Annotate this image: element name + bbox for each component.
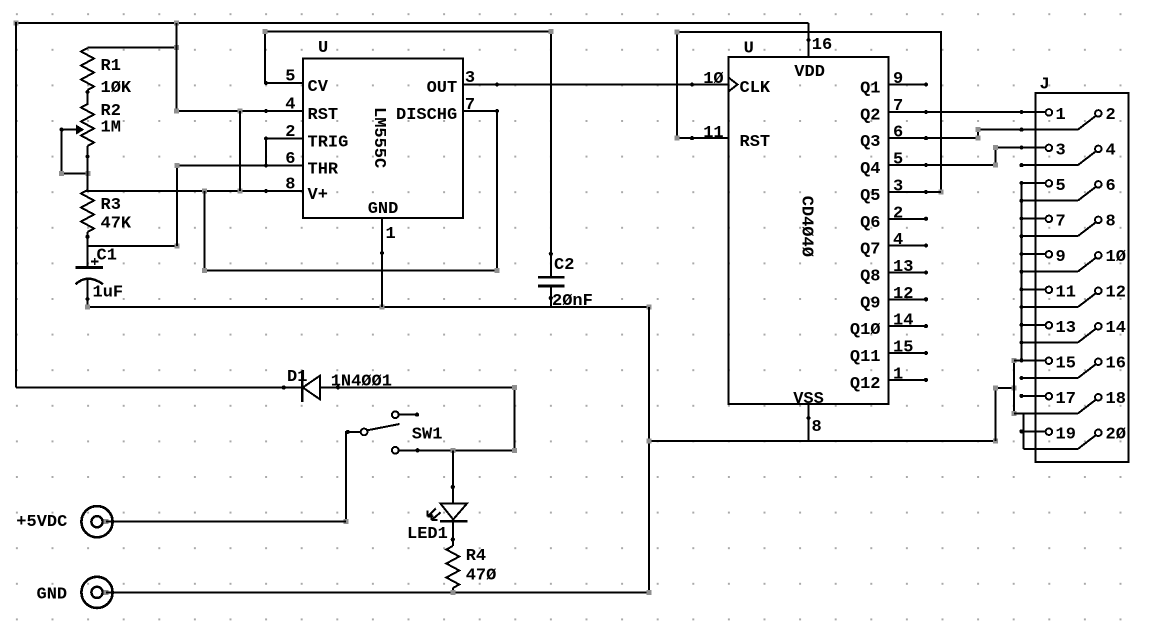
pin 1 label bbox=[386, 225, 396, 244]
op-amp U1 LM555C box bbox=[303, 59, 463, 219]
J pin 7 bbox=[1019, 216, 1052, 223]
svg-text:DISCHG: DISCHG bbox=[396, 106, 457, 125]
pin DISCHG label bbox=[396, 106, 457, 125]
svg-text:TRIG: TRIG bbox=[308, 134, 349, 153]
label R1 bbox=[101, 57, 121, 76]
pin number 9 (Q1) bbox=[893, 70, 903, 89]
svg-text:Q4: Q4 bbox=[860, 160, 880, 179]
wire GND rail bottom bbox=[106, 590, 651, 595]
svg-text:Q12: Q12 bbox=[850, 375, 881, 394]
wire Q7 stub bbox=[889, 244, 928, 248]
pin number 6 (Q3) bbox=[893, 124, 903, 143]
svg-text:RST: RST bbox=[740, 133, 771, 152]
value 1M bbox=[101, 119, 121, 138]
pin Q2 label bbox=[860, 106, 880, 125]
svg-text:Q6: Q6 bbox=[860, 214, 880, 233]
value 1N4001 bbox=[331, 373, 392, 392]
svg-text:2: 2 bbox=[893, 204, 903, 223]
resistor R2 (pot) bbox=[81, 104, 94, 159]
capacitor C2 bbox=[538, 277, 565, 307]
svg-text:3: 3 bbox=[893, 177, 903, 196]
svg-text:1N4ØØ1: 1N4ØØ1 bbox=[331, 373, 392, 392]
svg-text:RST: RST bbox=[308, 106, 339, 125]
svg-text:U: U bbox=[318, 39, 328, 58]
svg-text:7: 7 bbox=[1056, 212, 1066, 231]
svg-text:4: 4 bbox=[893, 231, 903, 250]
pin number 4 (Q7) bbox=[893, 231, 903, 250]
pin Q8 label bbox=[860, 267, 880, 286]
pin number 15 (Q11) bbox=[893, 339, 913, 358]
wire 555 TRIG stub bbox=[264, 136, 303, 140]
svg-text:11: 11 bbox=[703, 124, 723, 143]
svg-text:1Ø: 1Ø bbox=[1106, 248, 1126, 267]
wire Q5-RST loop bbox=[675, 30, 944, 195]
svg-text:C1: C1 bbox=[97, 247, 117, 266]
J pin 11 bbox=[1019, 287, 1052, 294]
svg-text:12: 12 bbox=[893, 285, 913, 304]
wire GND rail mid bbox=[85, 305, 651, 310]
label R3 bbox=[101, 196, 121, 215]
svg-text:VDD: VDD bbox=[794, 63, 825, 82]
pin 8 label bbox=[285, 176, 295, 195]
wire VDD left border drop bbox=[15, 22, 17, 388]
pin 11 label bbox=[703, 124, 723, 143]
svg-text:R1: R1 bbox=[101, 57, 121, 76]
pin CLK label bbox=[740, 79, 771, 98]
label C2 bbox=[554, 256, 574, 275]
pin 8 label bbox=[1106, 212, 1116, 231]
ic U2 CD4040 box bbox=[729, 57, 889, 404]
svg-text:3: 3 bbox=[1056, 141, 1066, 160]
resistor R4 bbox=[446, 546, 459, 588]
svg-text:11: 11 bbox=[1056, 283, 1076, 302]
pin THR label bbox=[308, 161, 339, 180]
svg-text:5: 5 bbox=[893, 151, 903, 170]
wire Q6 stub bbox=[889, 217, 928, 221]
pin 16 label bbox=[1106, 354, 1126, 373]
wire Q8 stub bbox=[889, 270, 928, 274]
svg-text:2Ø: 2Ø bbox=[1106, 425, 1126, 444]
svg-text:19: 19 bbox=[1056, 425, 1076, 444]
pin 6 label bbox=[1106, 177, 1116, 196]
wire Q3 to J pin2 bbox=[889, 127, 1078, 141]
J pin 12 bbox=[1019, 288, 1101, 310]
svg-text:5: 5 bbox=[1056, 177, 1066, 196]
pin 4 label bbox=[285, 96, 295, 115]
svg-text:Q9: Q9 bbox=[860, 294, 880, 313]
wire U2 VSS stub bbox=[807, 404, 811, 441]
svg-text:8: 8 bbox=[812, 418, 822, 437]
svg-text:4: 4 bbox=[1106, 141, 1116, 160]
svg-text:OUT: OUT bbox=[427, 79, 458, 98]
J pin 5 bbox=[1019, 180, 1052, 187]
wire 555 RST line bbox=[174, 109, 303, 114]
value CD4040 bbox=[797, 196, 816, 257]
pin 6 label bbox=[285, 150, 295, 169]
svg-text:J: J bbox=[1040, 76, 1050, 95]
svg-text:13: 13 bbox=[1056, 319, 1076, 338]
svg-text:8: 8 bbox=[285, 176, 295, 195]
svg-text:+5VDC: +5VDC bbox=[16, 513, 67, 532]
wire CV loop bbox=[263, 29, 554, 277]
svg-text:14: 14 bbox=[1106, 319, 1126, 338]
pin 14 label bbox=[1106, 319, 1126, 338]
J pin 18 bbox=[1014, 394, 1102, 414]
J pin 10 bbox=[1019, 252, 1101, 274]
J pin 19 bbox=[1019, 428, 1052, 435]
pin number 14 (Q10) bbox=[893, 312, 913, 331]
wire LED1 to R4 bbox=[451, 521, 455, 547]
label R4 bbox=[466, 547, 486, 566]
svg-text:V+: V+ bbox=[308, 186, 328, 205]
value 470 bbox=[466, 567, 497, 586]
wire R1 top to rail drop bbox=[88, 45, 180, 50]
wire R3 to C1 bbox=[87, 232, 89, 268]
svg-text:SW1: SW1 bbox=[412, 426, 443, 445]
wire Q1 stub bbox=[889, 82, 928, 86]
svg-text:17: 17 bbox=[1056, 390, 1076, 409]
label C1 bbox=[97, 247, 117, 266]
pin VSS label bbox=[793, 390, 824, 409]
wire Q12 stub bbox=[889, 378, 928, 382]
resistor R1 bbox=[81, 48, 94, 94]
svg-text:1uF: 1uF bbox=[93, 284, 124, 303]
svg-text:1Ø: 1Ø bbox=[703, 70, 723, 89]
J pin 13 bbox=[1019, 322, 1052, 329]
pin V+ label bbox=[308, 186, 328, 205]
svg-text:47K: 47K bbox=[101, 215, 132, 234]
svg-text:18: 18 bbox=[1106, 390, 1126, 409]
pin 10 label bbox=[703, 70, 723, 89]
svg-text:15: 15 bbox=[893, 339, 913, 358]
wire J bus upper bbox=[1021, 183, 1023, 360]
pin OUT label bbox=[427, 79, 458, 98]
pin 15 label bbox=[1056, 354, 1076, 373]
pin number 5 (Q4) bbox=[893, 151, 903, 170]
resistor R3 bbox=[81, 190, 94, 239]
node RST drop bbox=[176, 23, 178, 111]
svg-text:2ØnF: 2ØnF bbox=[552, 292, 593, 311]
svg-text:R4: R4 bbox=[466, 547, 486, 566]
wire Q2 to J pin1 bbox=[889, 110, 1046, 114]
pin number 7 (Q2) bbox=[893, 97, 903, 116]
pin number 13 (Q8) bbox=[893, 258, 913, 277]
svg-text:6: 6 bbox=[1106, 177, 1116, 196]
wire Q4 to J pin3 bbox=[889, 145, 1046, 168]
svg-text:LED1: LED1 bbox=[407, 525, 448, 544]
svg-text:Q11: Q11 bbox=[850, 348, 881, 367]
label U2 U bbox=[744, 40, 754, 59]
pin Q9 label bbox=[860, 294, 880, 313]
wire R3 bottom line bbox=[88, 243, 180, 248]
pin Q4 label bbox=[860, 160, 880, 179]
pin Q1 label bbox=[860, 80, 880, 99]
pin 16 label bbox=[812, 36, 832, 55]
pin 2 label bbox=[1106, 106, 1116, 125]
J pin 20 bbox=[1024, 429, 1102, 449]
svg-text:THR: THR bbox=[308, 161, 339, 180]
wire gnd to J15/18 bbox=[993, 386, 1016, 441]
svg-text:Q1Ø: Q1Ø bbox=[850, 321, 881, 340]
wire R1 to R2 bbox=[87, 90, 89, 105]
wire U1 GND stub bbox=[380, 218, 384, 307]
pin number 1 (Q12) bbox=[893, 365, 903, 384]
pin Q7 label bbox=[860, 241, 880, 260]
wire 555 THR line bbox=[174, 163, 303, 168]
J pin 6 bbox=[1019, 181, 1101, 203]
svg-text:47Ø: 47Ø bbox=[466, 567, 497, 586]
svg-text:GND: GND bbox=[368, 200, 399, 219]
svg-text:12: 12 bbox=[1106, 283, 1126, 302]
label D1 bbox=[287, 368, 307, 387]
svg-text:1: 1 bbox=[386, 225, 396, 244]
pin 9 label bbox=[1056, 248, 1066, 267]
J pin 16 bbox=[1019, 358, 1101, 380]
wire GND drop right bbox=[648, 307, 650, 592]
wire OUT to CLK bbox=[463, 82, 728, 86]
svg-text:2: 2 bbox=[285, 123, 295, 142]
pin Q5 label bbox=[860, 187, 880, 206]
svg-text:6: 6 bbox=[285, 150, 295, 169]
pin 3 label bbox=[465, 69, 475, 88]
label U1 U bbox=[318, 39, 328, 58]
label GND bbox=[37, 586, 68, 605]
J pin 2 bbox=[1078, 110, 1102, 130]
svg-text:LM555C: LM555C bbox=[369, 107, 388, 168]
diode D1 bbox=[302, 372, 320, 403]
svg-text:U: U bbox=[744, 40, 754, 59]
svg-text:Q3: Q3 bbox=[860, 133, 880, 152]
pin CV label bbox=[308, 78, 329, 97]
connector J box bbox=[1036, 93, 1129, 462]
pin 4 label bbox=[1106, 141, 1116, 160]
svg-text:CD4Ø4Ø: CD4Ø4Ø bbox=[797, 196, 816, 257]
wire Q5 stub bbox=[889, 190, 941, 194]
J pin 1 bbox=[1046, 109, 1053, 116]
svg-text:Q5: Q5 bbox=[860, 187, 880, 206]
terminal GND bbox=[81, 577, 112, 608]
wire VDD top rail bbox=[14, 21, 809, 26]
wire R2 to R3 bbox=[87, 146, 89, 192]
wire DISCHG loop bbox=[202, 109, 499, 273]
value LM555C bbox=[369, 107, 388, 168]
svg-text:CLK: CLK bbox=[740, 79, 771, 98]
wire VDD stub to U2 pin 16 bbox=[807, 23, 811, 57]
value 1uF bbox=[93, 284, 124, 303]
pin 7 label bbox=[465, 96, 475, 115]
pin 8 label U2 bbox=[812, 418, 822, 437]
pin 5 label bbox=[1056, 177, 1066, 196]
svg-text:16: 16 bbox=[812, 36, 832, 55]
svg-text:7: 7 bbox=[465, 96, 475, 115]
capacitor C1 bbox=[76, 268, 103, 308]
J pin 3 bbox=[1046, 145, 1053, 152]
wire Q11 stub bbox=[889, 351, 928, 355]
svg-text:CV: CV bbox=[308, 78, 329, 97]
led LED1 bbox=[428, 504, 468, 521]
J pin 9 bbox=[1019, 251, 1052, 258]
svg-text:GND: GND bbox=[37, 586, 68, 605]
wire rail to D1 bbox=[16, 385, 301, 389]
svg-text:R3: R3 bbox=[101, 196, 121, 215]
pin number 3 (Q5) bbox=[893, 177, 903, 196]
pin GND label bbox=[368, 200, 399, 219]
pin Q11 label bbox=[850, 348, 881, 367]
pin number 12 (Q9) bbox=[893, 285, 913, 304]
wire THR drop bbox=[176, 166, 178, 246]
wire D1 to SW1 bbox=[321, 385, 517, 453]
pin 5 label bbox=[285, 68, 295, 87]
pin 20 label bbox=[1106, 425, 1126, 444]
value 47K bbox=[101, 215, 132, 234]
wire Q9 stub bbox=[889, 297, 928, 301]
pin 1 label bbox=[1056, 106, 1066, 125]
pin TRIG label bbox=[308, 134, 349, 153]
svg-text:13: 13 bbox=[893, 258, 913, 277]
pin 12 label bbox=[1106, 283, 1126, 302]
svg-text:9: 9 bbox=[893, 70, 903, 89]
svg-text:1: 1 bbox=[1056, 106, 1066, 125]
label SW1 bbox=[412, 426, 443, 445]
svg-text:4: 4 bbox=[285, 96, 295, 115]
svg-text:C2: C2 bbox=[554, 256, 574, 275]
svg-text:9: 9 bbox=[1056, 248, 1066, 267]
pin 19 label bbox=[1056, 425, 1076, 444]
svg-text:Q8: Q8 bbox=[860, 267, 880, 286]
svg-text:16: 16 bbox=[1106, 354, 1126, 373]
wire SW1 to LED1 bbox=[451, 450, 455, 504]
wiper of R2 bbox=[59, 125, 90, 176]
svg-text:Q7: Q7 bbox=[860, 241, 880, 260]
plus mark C1 bbox=[91, 258, 99, 265]
pin RST label U2 bbox=[740, 133, 771, 152]
label R2 bbox=[101, 102, 121, 121]
wire J gnd vertical bbox=[1011, 358, 1016, 416]
pin number 2 (Q6) bbox=[893, 204, 903, 223]
svg-text:2: 2 bbox=[1106, 106, 1116, 125]
wire R4 to GND rail bbox=[452, 588, 454, 595]
svg-text:14: 14 bbox=[893, 312, 913, 331]
svg-text:Q2: Q2 bbox=[860, 106, 880, 125]
pin 18 label bbox=[1106, 390, 1126, 409]
pin 17 label bbox=[1056, 390, 1076, 409]
pin Q10 label bbox=[850, 321, 881, 340]
label +5VDC bbox=[16, 513, 67, 532]
pin RST label bbox=[308, 106, 339, 125]
J pin 4 bbox=[1019, 146, 1101, 168]
pin 10 label bbox=[1106, 248, 1126, 267]
terminal +5VDC bbox=[81, 506, 112, 537]
J pin 14 bbox=[1019, 323, 1101, 345]
pin Q3 label bbox=[860, 133, 880, 152]
wire TRIG-THR tie bbox=[265, 139, 267, 166]
value 10K bbox=[101, 79, 132, 98]
label LED1 bbox=[407, 525, 448, 544]
svg-text:8: 8 bbox=[1106, 212, 1116, 231]
pin VDD label bbox=[794, 63, 825, 82]
clock wedge U2 bbox=[729, 78, 738, 92]
J pin 8 bbox=[1019, 217, 1101, 239]
value 20nF bbox=[552, 292, 593, 311]
wire +5VDC line bbox=[106, 521, 346, 523]
wire GND row mid-right bbox=[646, 439, 998, 444]
switch SW1 bbox=[345, 411, 419, 453]
pin 7 label bbox=[1056, 212, 1066, 231]
J pin 15 bbox=[1014, 357, 1052, 364]
J pin 17 bbox=[1019, 393, 1052, 400]
svg-text:6: 6 bbox=[893, 124, 903, 143]
pin 13 label bbox=[1056, 319, 1076, 338]
wire RST-V+ tie bbox=[239, 111, 241, 191]
wire +5V to SW1 bbox=[344, 432, 349, 524]
pin 2 label bbox=[285, 123, 295, 142]
svg-text:1ØK: 1ØK bbox=[101, 79, 132, 98]
wire Q10 stub bbox=[889, 324, 928, 328]
svg-text:1M: 1M bbox=[101, 119, 121, 138]
pin 3 label bbox=[1056, 141, 1066, 160]
svg-text:Q1: Q1 bbox=[860, 80, 880, 99]
pin Q12 label bbox=[850, 375, 881, 394]
svg-text:1: 1 bbox=[893, 365, 903, 384]
wire 555 V+ line bbox=[88, 189, 303, 194]
label J bbox=[1040, 76, 1050, 95]
pin 11 label bbox=[1056, 283, 1076, 302]
wire J bus lower bbox=[1014, 414, 1024, 450]
svg-text:15: 15 bbox=[1056, 354, 1076, 373]
svg-text:D1: D1 bbox=[287, 368, 307, 387]
pin Q6 label bbox=[860, 214, 880, 233]
